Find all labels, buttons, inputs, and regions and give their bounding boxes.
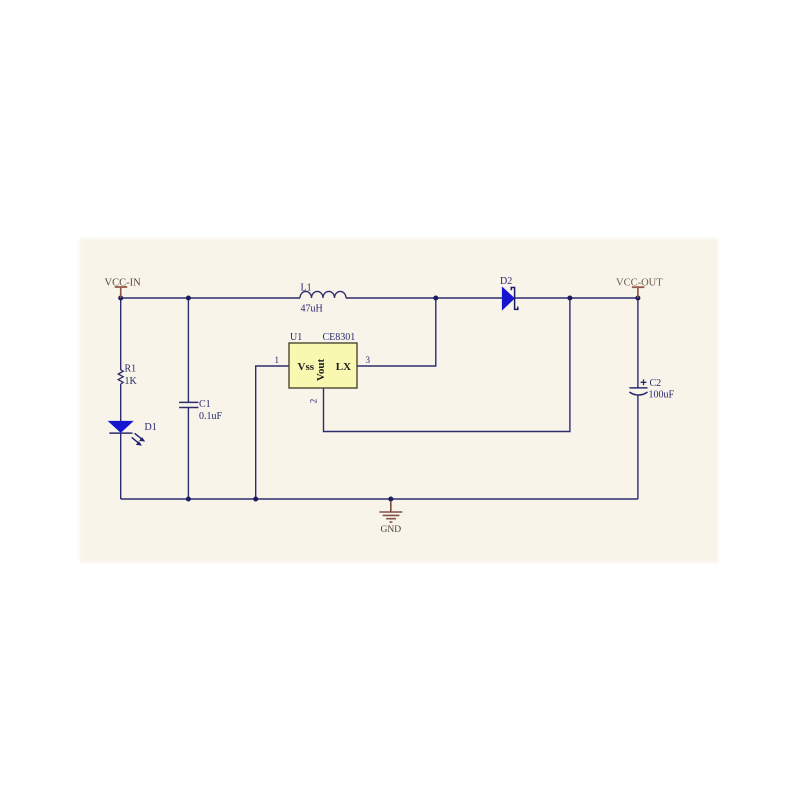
svg-text:CE8301: CE8301 <box>323 332 356 343</box>
junction GND symbol node <box>388 497 393 502</box>
svg-text:47uH: 47uH <box>301 304 323 315</box>
svg-text:C2: C2 <box>650 378 662 389</box>
wire pin2 Vout to output node <box>324 298 570 432</box>
wire C2 lower lead <box>637 396 639 500</box>
wire D1 to bottom rail <box>120 433 122 499</box>
svg-text:C1: C1 <box>199 399 211 410</box>
power port VCC-IN <box>105 278 142 299</box>
svg-text:R1: R1 <box>125 364 137 375</box>
wire pin1 Vss to ground <box>256 366 289 499</box>
svg-text:Vout: Vout <box>315 359 327 382</box>
wire bottom ground rail <box>121 498 638 500</box>
svg-text:2: 2 <box>309 399 319 404</box>
resistor R1 <box>118 364 137 388</box>
svg-text:VCC-IN: VCC-IN <box>105 278 142 289</box>
diode D2 (schottky) <box>500 276 518 310</box>
wire top rail right (D2 to VCC-OUT) <box>515 297 638 299</box>
svg-text:L1: L1 <box>301 283 312 294</box>
LED D1 <box>109 421 157 445</box>
wire R1 to D1 <box>120 384 122 422</box>
svg-text:100uF: 100uF <box>649 390 675 401</box>
svg-text:Vss: Vss <box>298 361 315 373</box>
junction C1 top node <box>186 296 191 301</box>
wire pin3 LX to top rail <box>357 298 436 366</box>
junction Vss ground node <box>253 497 258 502</box>
junction VCC-IN node <box>118 296 123 301</box>
svg-text:3: 3 <box>366 355 371 365</box>
inductor L1 <box>300 283 346 315</box>
svg-text:GND: GND <box>381 525 402 535</box>
junction LX / L1 node <box>433 296 438 301</box>
svg-text:VCC-OUT: VCC-OUT <box>616 278 663 289</box>
power port VCC-OUT <box>616 278 663 299</box>
junction C1 bottom node <box>186 497 191 502</box>
junction VCC-OUT node <box>635 296 640 301</box>
junction Vout feedback node <box>567 296 572 301</box>
svg-text:D2: D2 <box>500 276 512 287</box>
svg-text:D1: D1 <box>145 422 157 433</box>
ground GND <box>379 501 402 535</box>
svg-text:1K: 1K <box>125 376 138 387</box>
svg-text:1: 1 <box>275 355 280 365</box>
capacitor C1 <box>179 399 222 422</box>
svg-text:0.1uF: 0.1uF <box>199 411 223 422</box>
capacitor C2 (polarized) <box>629 378 674 401</box>
wire C2 upper lead <box>637 298 639 388</box>
wire top rail left (VCC-IN to L1) <box>121 297 300 299</box>
svg-text:LX: LX <box>336 361 351 373</box>
wire left branch upper (VCC-IN to R1) <box>120 298 122 370</box>
wire C1 lower lead <box>187 408 189 499</box>
wire C1 upper lead <box>187 298 189 402</box>
op-amp U1 (CE8301 regulator box) <box>275 332 371 403</box>
svg-text:U1: U1 <box>290 332 302 343</box>
wire top rail middle (L1 to D2) <box>346 297 502 299</box>
